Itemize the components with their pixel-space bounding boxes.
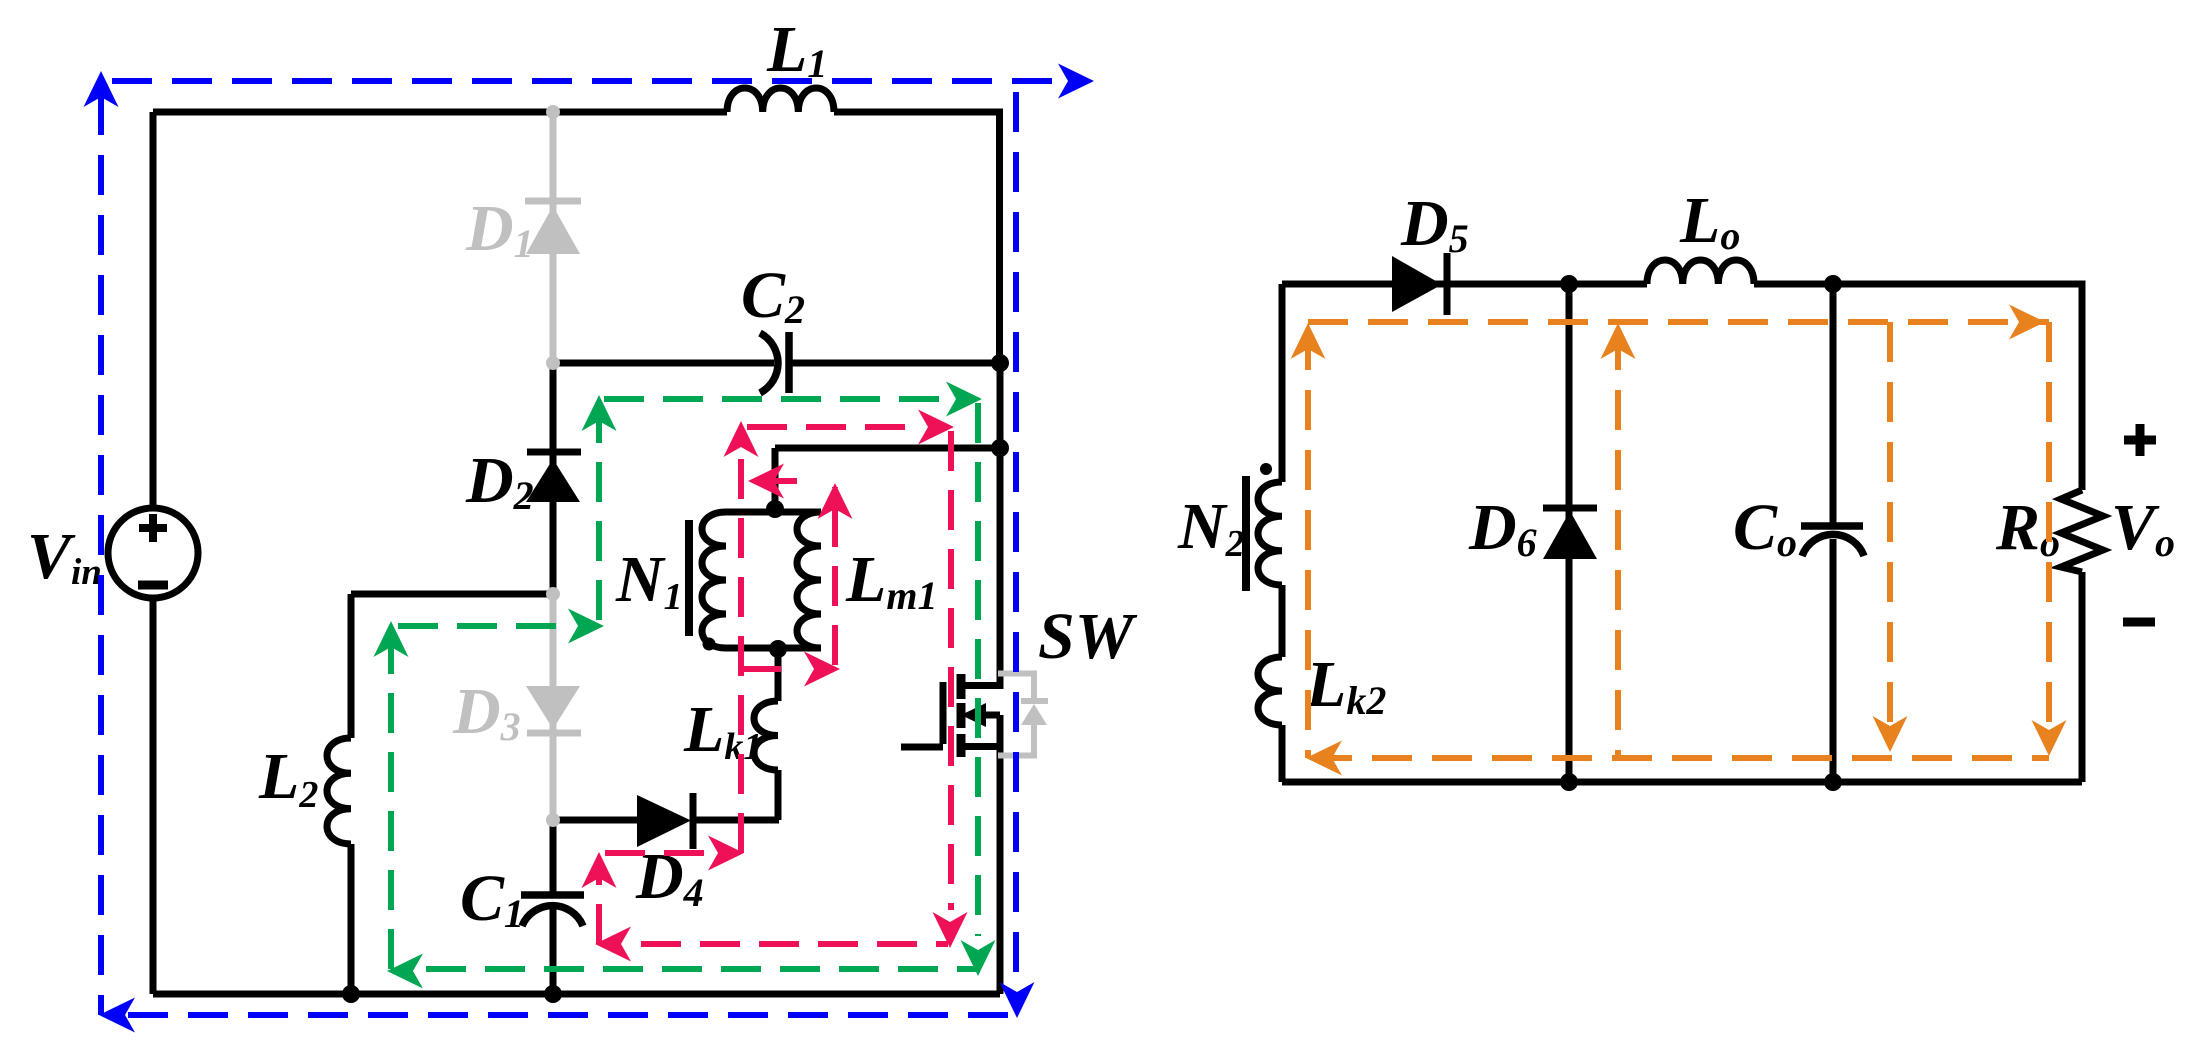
arrow green down right bbox=[961, 940, 996, 976]
pink loop bbox=[599, 427, 951, 944]
arrow pink left bottom bbox=[595, 927, 631, 962]
wire pink inner bottom bbox=[741, 666, 800, 672]
svg-text:D5: D5 bbox=[1400, 187, 1469, 261]
arrow pink right top bbox=[918, 410, 954, 445]
arrow green up mid bbox=[582, 395, 617, 431]
wire green left vertical bbox=[388, 630, 394, 969]
wire top-right corner down to C2 node bbox=[834, 112, 1000, 363]
wire orange left vertical bbox=[1305, 330, 1311, 758]
svg-text:D2: D2 bbox=[465, 444, 534, 518]
diode D5 bbox=[1392, 256, 1442, 312]
node N1-top-right junction bbox=[991, 439, 1009, 457]
body diode of SW (gray) bbox=[998, 674, 1034, 756]
wire blue left bbox=[98, 95, 104, 1015]
svg-text:Lk2: Lk2 bbox=[1305, 648, 1386, 723]
arrow pink left inner-top bbox=[748, 464, 784, 499]
wire orange top bbox=[1308, 319, 2049, 325]
blue loop (input) bbox=[101, 81, 1058, 1015]
green loop bbox=[391, 399, 978, 969]
wire right segment C2-node to N1-node bbox=[997, 363, 1004, 448]
wire bottom of secondary bbox=[1282, 779, 2082, 786]
wire L2 top horizontal bbox=[351, 591, 553, 598]
inductor Lm1 bbox=[797, 512, 821, 648]
svg-text:Lm1: Lm1 bbox=[845, 543, 937, 618]
wire orange bottom bbox=[1312, 755, 2049, 761]
node C1 bottom junction bbox=[544, 985, 562, 1003]
arrow orange down right-mid bbox=[1873, 716, 1908, 752]
svg-text:L1: L1 bbox=[766, 13, 827, 86]
wire orange right vertical bbox=[2046, 322, 2052, 748]
MOSFET SW bbox=[957, 674, 966, 757]
wire right segment N1-node to SW drain bbox=[961, 448, 1000, 686]
wire blue bottom bbox=[128, 1012, 1010, 1018]
arrow orange up left bbox=[1291, 323, 1326, 359]
arrow pink right inner-bottom bbox=[804, 652, 840, 687]
arrow pink up main-left bbox=[724, 421, 759, 457]
arrow green right jog bbox=[568, 609, 604, 644]
wire top of secondary bbox=[1282, 281, 1647, 288]
inductor L1 bbox=[727, 88, 834, 112]
inductor Lk1 bbox=[775, 770, 782, 820]
inductor Lo bbox=[1647, 260, 1754, 284]
arrow orange up mid bbox=[1601, 323, 1636, 359]
wire green right vertical bbox=[975, 403, 981, 936]
node D6 bottom junction bbox=[1560, 773, 1578, 791]
node D1 top (gray) bbox=[546, 105, 560, 119]
node N1/Lm1 top junction bbox=[766, 500, 784, 518]
winding N2 bbox=[1279, 284, 1286, 482]
wire pink jog horizontal bbox=[605, 850, 706, 856]
svg-text:Co: Co bbox=[1733, 491, 1797, 565]
svg-text:N1: N1 bbox=[615, 543, 683, 618]
arrow green right top bbox=[946, 382, 982, 417]
core bar of N1 bbox=[685, 520, 693, 636]
arrow blue left bottom-left bbox=[99, 998, 135, 1033]
diode D3 (gray, inactive) bbox=[550, 594, 557, 820]
capacitor C1 bbox=[550, 820, 557, 895]
svg-text:Vo: Vo bbox=[2111, 491, 2175, 565]
svg-text:L2: L2 bbox=[258, 740, 318, 816]
arrow orange left bottom bbox=[1306, 741, 1342, 776]
svg-text:D3: D3 bbox=[452, 675, 521, 749]
phase dot N2 bbox=[1260, 463, 1272, 475]
winding N1 bbox=[726, 509, 821, 516]
svg-text:N2: N2 bbox=[1177, 490, 1245, 565]
arrow pink right jog bbox=[708, 836, 744, 871]
svg-text:C1: C1 bbox=[460, 862, 524, 936]
svg-text:SW: SW bbox=[1038, 600, 1138, 673]
diode D6 bbox=[1566, 284, 1573, 782]
node L2 bottom junction bbox=[342, 985, 360, 1003]
capacitor Co bbox=[1830, 284, 1837, 525]
wire pink inner top bbox=[757, 478, 802, 484]
arrow blue up top-left bbox=[84, 71, 119, 107]
node C2-right junction bbox=[991, 354, 1009, 372]
svg-text:Lk1: Lk1 bbox=[683, 693, 762, 768]
svg-text:Vin: Vin bbox=[27, 520, 102, 593]
core bar of N2 bbox=[1242, 476, 1250, 591]
node N1/Lm1 bottom junction bbox=[769, 640, 787, 658]
wire green mid vertical bbox=[596, 403, 602, 620]
resistor Ro bbox=[2061, 490, 2103, 572]
wire pink inner right vertical bbox=[832, 487, 838, 665]
diode D2 bbox=[550, 363, 557, 594]
inductor Lk2 bbox=[1279, 585, 1286, 657]
wire left above Vin bbox=[150, 112, 157, 507]
wire green top bbox=[604, 396, 946, 402]
wire orange mid vertical bbox=[1615, 330, 1621, 758]
wire pink bottom bbox=[641, 941, 948, 947]
wire green jog horizontal bbox=[398, 623, 566, 629]
arrow green left bottom bbox=[387, 954, 423, 989]
node D3/C1/D4 (gray) bbox=[546, 813, 560, 827]
wire left below Vin bbox=[150, 600, 157, 994]
arrow blue down bottom-right bbox=[1000, 982, 1035, 1018]
node D5/D6/Lo junction bbox=[1560, 275, 1578, 293]
arrow green up left bbox=[374, 621, 409, 657]
wire top node of N1/Lm1 to right rail bbox=[775, 448, 1000, 509]
wire top right to Ro bbox=[1754, 284, 2082, 490]
phase dot N1 bbox=[703, 638, 716, 651]
wire top-left from Vin to L1 bbox=[153, 109, 727, 116]
wire pink lower-left vertical bbox=[596, 862, 602, 944]
wire blue right bbox=[1013, 92, 1019, 1008]
node Lo/Co junction bbox=[1824, 275, 1842, 293]
minus sign output bbox=[2123, 618, 2155, 627]
node Co bottom junction bbox=[1824, 773, 1842, 791]
arrow blue right top-right bbox=[1058, 64, 1094, 99]
wire bottom bbox=[153, 991, 1000, 998]
capacitor C2 bbox=[553, 360, 774, 367]
wire L2 bottom bbox=[348, 844, 355, 994]
arrow orange down right bbox=[2032, 720, 2067, 756]
wire blue top bbox=[112, 78, 1058, 84]
voltage source Vin bbox=[108, 508, 198, 598]
wire pink right vertical bbox=[948, 431, 954, 910]
wire pink main left vertical bbox=[738, 427, 744, 853]
svg-text:C2: C2 bbox=[741, 259, 805, 332]
arrow pink up inner-right bbox=[818, 483, 853, 519]
node D1/D2/C2 (gray) bbox=[546, 356, 560, 370]
plus sign output bbox=[2124, 424, 2156, 456]
node D2/D3/L2 (gray) bbox=[546, 587, 560, 601]
wire green bottom bbox=[426, 966, 978, 972]
arrow pink up lower-left bbox=[582, 852, 617, 888]
svg-text:D6: D6 bbox=[1468, 491, 1537, 565]
wire orange right-mid vertical bbox=[1887, 322, 1893, 744]
wire SW source down to bottom bbox=[997, 715, 1004, 994]
svg-text:Lo: Lo bbox=[1679, 184, 1740, 258]
inductor L2 bbox=[327, 738, 351, 844]
arrow pink down right bbox=[933, 912, 968, 948]
svg-text:D1: D1 bbox=[465, 192, 534, 266]
orange loop (output) bbox=[1308, 322, 2049, 758]
diode D1 (gray, inactive) bbox=[525, 112, 581, 363]
wire pink top bbox=[747, 424, 916, 430]
arrow orange right top bbox=[2009, 305, 2045, 340]
diode D4 bbox=[553, 817, 637, 824]
